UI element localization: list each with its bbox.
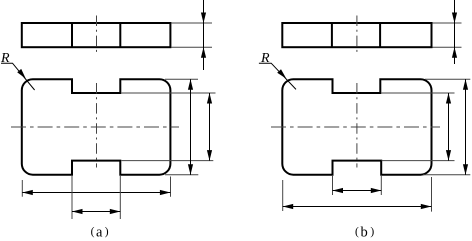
front view horizontal centerline (a)	[11, 126, 179, 128]
thickness dimension upper arrowhead (a)	[201, 13, 206, 24]
thickness dimension shaft (b)	[454, 0, 456, 64]
front view vertical centerline (a)	[96, 83, 98, 168]
bottom notch dimension left arrowhead (a)	[72, 209, 83, 214]
top view vertical centerline (a)	[96, 16, 98, 55]
radius leader arrowhead (b)	[277, 69, 286, 78]
extension line top edge (b)	[425, 78, 470, 80]
width extension line left (b)	[282, 180, 284, 211]
extension line bottom notch floor (b)	[382, 160, 455, 162]
top view division line right (a)	[119, 23, 121, 47]
thickness dimension shaft (a)	[203, 0, 205, 70]
front view horizontal centerline (b)	[271, 126, 440, 128]
bottom notch dimension right arrowhead (b)	[371, 188, 382, 193]
bottom notch dimension line (b)	[333, 190, 382, 192]
top view vertical centerline (b)	[356, 16, 358, 55]
radius leader line (a)	[1, 63, 35, 90]
notch floors dimension line (a)	[209, 93, 211, 161]
extension line bottom edge (a)	[165, 174, 198, 176]
extension line top edge of top view (b)	[433, 22, 462, 24]
bottom notch dimension left arrowhead (b)	[333, 188, 344, 193]
thickness dimension lower arrowhead (a)	[201, 47, 206, 58]
extension line bottom edge (b)	[423, 174, 470, 176]
extension line bottom edge of top view (b)	[433, 46, 462, 48]
width dimension right arrowhead (b)	[421, 204, 432, 209]
top view division line left (a)	[71, 23, 73, 47]
height dimension line (b)	[465, 79, 467, 175]
width dimension line (b)	[283, 206, 432, 208]
radius leader line (b)	[259, 63, 296, 89]
extension line top notch floor (a)	[122, 92, 216, 94]
front view vertical centerline (b)	[356, 83, 358, 168]
extension line top edge (a)	[165, 78, 198, 80]
width dimension right arrowhead (a)	[160, 190, 171, 195]
extension line bottom notch floor (a)	[122, 160, 214, 162]
extension line top edge of top view (a)	[172, 22, 213, 24]
notch floors dimension bottom arrowhead (a)	[207, 150, 212, 161]
thickness dimension upper arrowhead (b)	[452, 13, 457, 24]
extension line top notch floor (b)	[381, 92, 454, 94]
bottom notch dimension line (a)	[72, 211, 120, 213]
top view outline rect (b)	[282, 23, 431, 47]
front view outline (b)	[282, 79, 431, 175]
width dimension left arrowhead (b)	[283, 204, 294, 209]
width extension line right (a)	[170, 177, 172, 197]
top view division line left (b)	[331, 23, 333, 47]
thickness dimension lower arrowhead (b)	[452, 47, 457, 58]
height dimension line (a)	[190, 79, 192, 175]
width dimension line (a)	[22, 192, 170, 194]
height dimension top arrowhead (a)	[188, 79, 193, 90]
notch floors dimension line (b)	[448, 93, 450, 161]
notch floors dimension bottom arrowhead (b)	[446, 150, 451, 161]
height dimension top arrowhead (b)	[463, 79, 468, 90]
notch floors dimension top arrowhead (a)	[207, 93, 212, 104]
bottom notch extension line left (b)	[332, 176, 334, 195]
bottom notch extension line right (b)	[380, 176, 382, 195]
top view division line right (b)	[379, 23, 381, 47]
width extension line right (b)	[431, 177, 433, 212]
extension line bottom edge of top view (a)	[172, 46, 213, 48]
width extension line left (a)	[21, 180, 23, 197]
bottom notch extension line left (a)	[71, 176, 73, 219]
bottom notch dimension right arrowhead (a)	[110, 209, 121, 214]
height dimension bottom arrowhead (b)	[463, 164, 468, 175]
front view outline (a)	[22, 79, 171, 175]
bottom notch extension line right (a)	[119, 176, 121, 219]
notch floors dimension top arrowhead (b)	[446, 93, 451, 104]
top view outline rect (a)	[22, 23, 171, 47]
radius leader arrowhead (a)	[17, 69, 26, 79]
width dimension left arrowhead (a)	[22, 190, 33, 195]
height dimension bottom arrowhead (a)	[188, 164, 193, 175]
